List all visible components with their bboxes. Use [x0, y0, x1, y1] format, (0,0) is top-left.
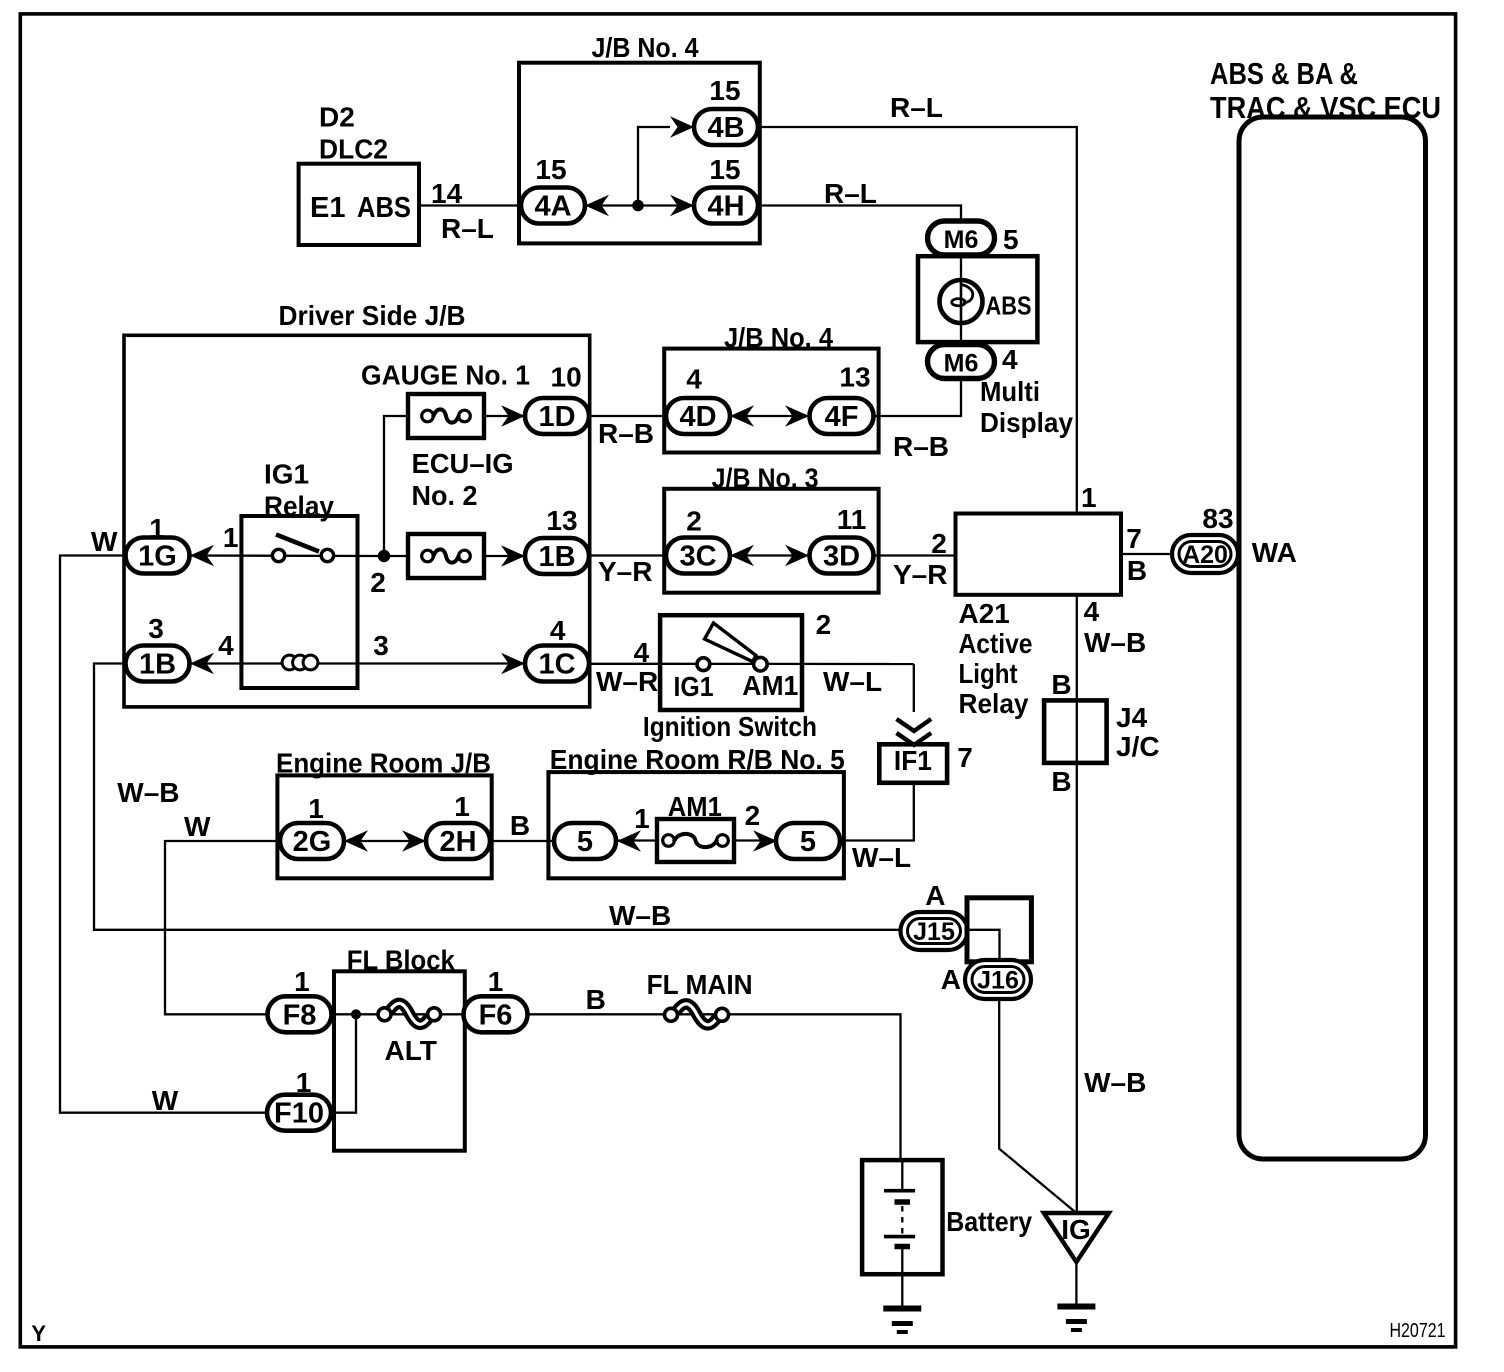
fusible link FL MAIN — [665, 1004, 729, 1025]
connector mark into 1C — [501, 653, 525, 675]
svg-text:R–B: R–B — [598, 418, 654, 449]
connector mark at 4A — [585, 195, 609, 217]
wire W from 1G to left rail — [60, 556, 267, 1113]
battery cell symbol — [884, 1161, 915, 1247]
connector mark into 4F — [785, 405, 809, 427]
svg-text:83: 83 — [1202, 503, 1233, 534]
fusible link block FL Block — [334, 971, 465, 1150]
ground (IG) — [1057, 1307, 1095, 1331]
svg-text:B: B — [1051, 766, 1071, 797]
svg-text:15: 15 — [535, 154, 566, 185]
svg-text:Driver Side J/B: Driver Side J/B — [279, 300, 466, 331]
connector mark at 1B left — [190, 653, 214, 675]
svg-text:M6: M6 — [944, 226, 979, 254]
connector mark into 5 right — [753, 830, 777, 852]
fuse AM1 — [657, 819, 734, 862]
connector 4F — [810, 398, 874, 434]
wire AM1 fuse to 5 — [733, 839, 777, 841]
svg-text:1: 1 — [223, 522, 239, 553]
svg-text:2: 2 — [745, 800, 761, 831]
svg-text:Y: Y — [31, 1321, 46, 1346]
wire B 2H to 5 — [491, 840, 555, 842]
svg-text:AM1: AM1 — [742, 670, 798, 701]
connector mark into 1D — [501, 405, 525, 427]
wire battery to ground — [901, 1248, 903, 1308]
connector F8 — [268, 996, 332, 1032]
relay IG1 switch contacts — [272, 535, 333, 562]
svg-text:R–L: R–L — [890, 92, 943, 123]
connector 5 (right) — [776, 823, 840, 859]
svg-text:ABS & BA &: ABS & BA & — [1210, 56, 1358, 91]
connector 1B (relay side) — [126, 646, 190, 682]
junction block Engine Room J/B — [277, 775, 491, 878]
svg-text:A: A — [925, 880, 945, 911]
svg-text:F10: F10 — [274, 1098, 324, 1130]
svg-text:J15: J15 — [913, 918, 955, 946]
svg-text:4A: 4A — [534, 191, 571, 223]
svg-text:Ignition Switch: Ignition Switch — [643, 711, 817, 742]
svg-text:3D: 3D — [823, 541, 860, 573]
svg-text:W–B: W–B — [609, 900, 671, 931]
wire W-B A21 pin4 down to IG triangle — [1076, 595, 1078, 1213]
connector mark at 4D — [730, 405, 754, 427]
svg-text:14: 14 — [431, 178, 463, 209]
connector 4B — [694, 109, 758, 145]
junction connector J4 — [1044, 700, 1107, 763]
svg-text:1C: 1C — [538, 649, 575, 681]
wire Y-R 3D to A21 — [874, 554, 956, 556]
connector 2H — [426, 823, 490, 859]
fusible link IF1 — [879, 744, 947, 783]
connector A20 — [1172, 535, 1238, 573]
svg-text:3: 3 — [373, 630, 389, 661]
wire IG triangle to ground — [1075, 1262, 1077, 1306]
wire R-B from 4F up to M6-4 — [874, 377, 962, 416]
svg-text:IG1: IG1 — [674, 671, 714, 702]
svg-text:R–L: R–L — [824, 178, 877, 209]
connector mark into 3D — [785, 545, 809, 567]
wire between 4D and 4F — [730, 415, 809, 417]
wire R-B 1D to 4D — [589, 415, 666, 417]
svg-text:2H: 2H — [439, 826, 476, 858]
junction node ALT — [351, 1009, 361, 1019]
wire between 2G and 2H — [344, 840, 426, 842]
svg-text:Light: Light — [959, 658, 1018, 689]
svg-text:E1: E1 — [310, 192, 345, 224]
svg-text:Relay: Relay — [959, 688, 1029, 719]
svg-text:Display: Display — [980, 407, 1073, 438]
svg-text:1D: 1D — [538, 401, 575, 433]
svg-text:1: 1 — [634, 803, 650, 834]
wire between 3C and 3D — [730, 554, 809, 556]
svg-text:10: 10 — [551, 362, 582, 393]
svg-text:15: 15 — [709, 75, 740, 106]
connector J16 — [965, 960, 1031, 999]
svg-text:2: 2 — [370, 567, 386, 598]
svg-text:J/B No. 4: J/B No. 4 — [592, 32, 699, 63]
multi display box — [918, 256, 1037, 342]
wire relay coil row 1B to 1C — [125, 662, 525, 664]
svg-text:1: 1 — [454, 791, 470, 822]
svg-text:B: B — [1127, 555, 1147, 586]
svg-text:F6: F6 — [479, 999, 513, 1031]
svg-text:A21: A21 — [959, 598, 1010, 629]
ABS warning bulb symbol — [940, 280, 983, 323]
connector mark into 1B — [501, 545, 525, 567]
svg-text:11: 11 — [837, 504, 867, 535]
relay IG1 coil — [282, 655, 318, 670]
svg-text:4B: 4B — [707, 112, 744, 144]
ignition switch contacts and lever — [697, 623, 767, 671]
svg-text:2G: 2G — [293, 826, 332, 858]
connector mark into 4B — [670, 116, 694, 138]
connector F10 — [267, 1095, 331, 1131]
svg-text:B: B — [586, 984, 606, 1015]
wire R-L from 4H to Multi Display M6-5 — [758, 206, 961, 223]
ground (battery) — [883, 1309, 921, 1333]
wire branch up to 4B — [638, 127, 670, 206]
svg-text:ALT: ALT — [385, 1035, 437, 1066]
svg-text:4: 4 — [1084, 596, 1100, 627]
svg-text:F8: F8 — [283, 999, 317, 1031]
svg-text:A20: A20 — [1182, 541, 1228, 569]
connector J15 — [901, 912, 968, 950]
svg-text:ECU–IG: ECU–IG — [412, 448, 514, 479]
svg-text:4: 4 — [1002, 344, 1018, 375]
svg-text:IG: IG — [1061, 1214, 1091, 1245]
wire ECU-IG fuse to 1B — [483, 555, 525, 557]
svg-text:7: 7 — [1126, 523, 1142, 554]
svg-text:M6: M6 — [944, 350, 979, 378]
svg-text:H20721: H20721 — [1390, 1320, 1446, 1342]
svg-text:W–L: W–L — [823, 666, 882, 697]
wire ALT branch down to F10 — [331, 1014, 356, 1112]
wire F8 to ALT to F6 — [332, 1013, 463, 1015]
connector 3D — [810, 538, 874, 574]
svg-text:W: W — [184, 811, 211, 842]
svg-text:5: 5 — [577, 826, 593, 858]
relay block Engine Room R/B No.5 — [548, 772, 844, 878]
svg-text:1: 1 — [294, 966, 310, 997]
svg-text:1G: 1G — [138, 541, 177, 573]
svg-text:13: 13 — [546, 505, 577, 536]
svg-text:Active: Active — [959, 628, 1033, 659]
svg-text:4: 4 — [634, 637, 650, 668]
svg-text:ABS: ABS — [986, 291, 1032, 321]
junction block Driver Side J/B — [124, 335, 590, 707]
connector block E1 DLC2 — [299, 164, 419, 245]
relay A21 Active Light Relay — [956, 514, 1122, 595]
svg-text:5: 5 — [1003, 224, 1019, 255]
wire W-L ignition AM1 down to IF1 — [913, 664, 915, 712]
svg-text:Battery: Battery — [946, 1206, 1032, 1237]
svg-text:FL MAIN: FL MAIN — [647, 969, 753, 1000]
wire GAUGE fuse branch — [384, 416, 409, 556]
connector mark at 3C — [730, 545, 754, 567]
svg-text:2: 2 — [816, 609, 832, 640]
wire between 5 and AM1 fuse — [616, 839, 658, 841]
connector 4H — [694, 188, 758, 224]
svg-text:7: 7 — [957, 742, 973, 773]
connector M6 pin5 — [928, 221, 995, 255]
svg-text:A: A — [941, 964, 961, 995]
connector 4A — [521, 188, 585, 224]
connector M6 pin4 — [928, 345, 995, 379]
wire inside J/C from J15 to J16 — [967, 930, 1000, 961]
connector mark at 5 left — [617, 830, 641, 852]
svg-text:R–L: R–L — [441, 213, 494, 244]
wire W-R 1C to ignition switch — [589, 663, 914, 666]
wire inside Multi Display upper — [960, 254, 962, 281]
svg-text:1B: 1B — [139, 649, 176, 681]
wire R-L from 4B to ECU vertical — [758, 127, 1077, 514]
svg-text:1: 1 — [488, 966, 504, 997]
svg-text:B: B — [510, 810, 530, 841]
svg-text:J16: J16 — [977, 967, 1019, 995]
svg-text:WA: WA — [1252, 537, 1297, 568]
svg-text:IF1: IF1 — [894, 745, 932, 776]
svg-text:15: 15 — [709, 154, 740, 185]
svg-text:J4: J4 — [1116, 702, 1148, 733]
battery box — [862, 1160, 942, 1274]
connector F6 — [464, 996, 528, 1032]
svg-text:IG1: IG1 — [264, 459, 309, 490]
wire 1G to IG1 relay switch — [190, 554, 384, 557]
svg-text:4H: 4H — [707, 191, 744, 223]
wire J16 down to IG triangle — [999, 1000, 1076, 1214]
svg-text:4: 4 — [686, 364, 702, 395]
svg-text:W–R: W–R — [596, 666, 658, 697]
svg-text:4: 4 — [550, 615, 566, 646]
relay IG1 — [241, 516, 357, 688]
wire R-L from DLC2 E1 to 4A — [419, 204, 521, 206]
wire ECU-IG fuse row — [384, 555, 409, 557]
junction node 4A branch — [632, 200, 644, 212]
ground point IG triangle — [1044, 1213, 1109, 1262]
svg-text:No. 2: No. 2 — [412, 480, 478, 511]
connector 1G — [126, 538, 190, 574]
junction connector J/C (J15/J16) — [967, 898, 1031, 962]
svg-text:GAUGE No. 1: GAUGE No. 1 — [361, 360, 530, 391]
svg-text:J/C: J/C — [1116, 731, 1160, 762]
svg-text:5: 5 — [800, 826, 816, 858]
junction block J/B No.4 (top) — [519, 63, 760, 244]
svg-text:Y–R: Y–R — [893, 559, 947, 590]
svg-text:W: W — [152, 1085, 179, 1116]
svg-text:4D: 4D — [679, 401, 716, 433]
junction node relay pin2 — [378, 550, 390, 562]
svg-text:W–L: W–L — [852, 842, 911, 873]
wire Y-R 1B to 3C — [589, 554, 666, 556]
connector 2G — [280, 823, 344, 859]
wire inside J/B No.4: 4A to 4H with branch — [585, 204, 694, 206]
wire W-B from 1B down and right to J15 — [94, 664, 901, 930]
connector 3C — [666, 538, 730, 574]
fusible link chevrons above IF1 — [897, 719, 932, 745]
svg-text:W–B: W–B — [1084, 627, 1146, 658]
fuse ECU-IG No.2 — [408, 534, 484, 578]
svg-text:W: W — [91, 526, 118, 557]
ECU block ABS & BA & TRAC & VSC — [1239, 117, 1426, 1159]
connector 1B (fuse side) — [525, 538, 589, 574]
connector 1C — [525, 646, 589, 682]
wire IF1 to R/B No.5 pin 5 — [841, 783, 914, 841]
connector mark into 2H — [402, 830, 426, 852]
connector 4D — [666, 398, 730, 434]
wire B F6 to FL MAIN to battery — [529, 1014, 901, 1161]
svg-text:13: 13 — [839, 362, 870, 393]
connector 1D — [525, 398, 589, 434]
svg-text:Y–R: Y–R — [598, 556, 652, 587]
svg-text:ABS: ABS — [357, 192, 411, 224]
svg-text:1B: 1B — [538, 541, 575, 573]
svg-text:1: 1 — [308, 793, 324, 824]
fusible link ALT — [378, 1003, 441, 1024]
wire W from 2G to F8 — [165, 841, 281, 1014]
svg-text:W–B: W–B — [1084, 1067, 1146, 1098]
svg-text:2: 2 — [931, 528, 947, 559]
switch Ignition Switch — [660, 615, 802, 710]
svg-text:B: B — [1051, 669, 1071, 700]
svg-text:Multi: Multi — [980, 376, 1040, 407]
junction block J/B No.3 — [664, 489, 878, 593]
svg-text:W–B: W–B — [117, 777, 179, 808]
connector 5 (left) — [554, 823, 616, 859]
wire inside Multi Display lower — [960, 323, 962, 347]
connector mark at 2G — [344, 830, 368, 852]
svg-text:R–B: R–B — [893, 431, 949, 462]
junction block J/B No.4 (middle) — [664, 349, 878, 453]
svg-text:4F: 4F — [825, 401, 859, 433]
svg-text:3C: 3C — [679, 541, 716, 573]
connector mark at 1G — [190, 545, 214, 567]
wire GAUGE fuse to 1D — [483, 415, 525, 417]
svg-text:DLC2: DLC2 — [319, 134, 388, 165]
svg-text:4: 4 — [218, 630, 234, 661]
connector mark into 4H — [670, 195, 694, 217]
svg-text:3: 3 — [148, 613, 164, 644]
svg-text:D2: D2 — [319, 102, 355, 133]
svg-text:2: 2 — [686, 506, 702, 537]
wire B A21 to A20 — [1121, 553, 1172, 555]
svg-text:1: 1 — [1081, 482, 1097, 513]
fuse GAUGE No.1 — [408, 394, 484, 438]
